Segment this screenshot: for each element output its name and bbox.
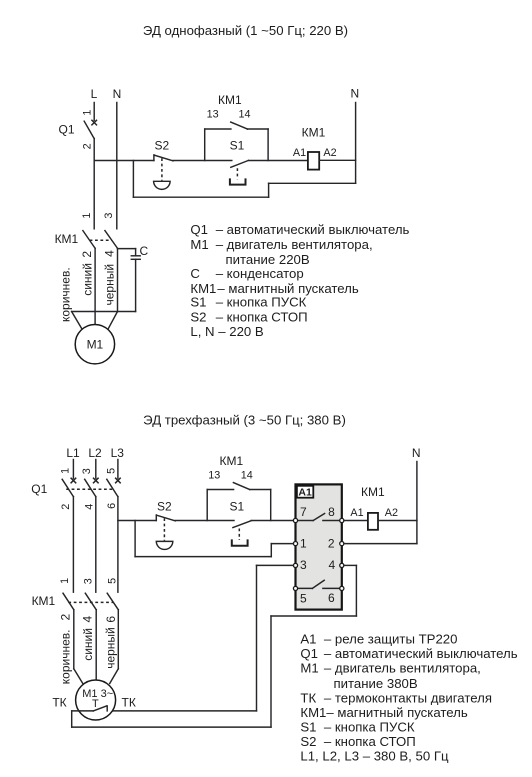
svg-text:S1: S1 — [229, 500, 244, 514]
button S2 moving arm — [154, 155, 173, 161]
svg-text:– конденсатор: – конденсатор — [216, 266, 304, 281]
motor M1 3~ circle — [76, 680, 116, 720]
capacitor C top lead — [135, 249, 137, 256]
button S1 moving arm — [233, 521, 251, 528]
svg-text:питание 220В: питание 220В — [226, 252, 310, 267]
svg-text:Q1: Q1 — [31, 482, 47, 496]
wire L2 drop — [95, 460, 97, 479]
wire rail S2 to S1 — [175, 520, 234, 522]
KM1 aux moving arm — [233, 483, 249, 490]
svg-text:Q1: Q1 — [58, 122, 74, 136]
wire N vertical — [416, 462, 418, 544]
svg-text:КМ1: КМ1 — [300, 705, 326, 720]
wire L1 drop — [72, 460, 74, 479]
svg-text:черный: черный — [103, 264, 117, 306]
KM1 aux right leg — [270, 490, 272, 521]
svg-text:синий: синий — [81, 628, 95, 661]
svg-text:М1: М1 — [300, 660, 318, 675]
svg-text:C: C — [139, 244, 148, 258]
relay contact 7-8 right segment — [323, 520, 340, 522]
svg-text:Q1: Q1 — [190, 222, 208, 237]
svg-text:2: 2 — [80, 251, 94, 258]
svg-text:А1: А1 — [300, 631, 316, 646]
wire branch to capacitor — [118, 248, 136, 250]
S2 mushroom head — [154, 181, 171, 189]
svg-text:Q1: Q1 — [300, 646, 318, 661]
KM1 aux branch left segment — [207, 489, 233, 491]
wire phase 1 down to KM1 — [72, 497, 74, 593]
svg-text:питание 380В: питание 380В — [334, 676, 418, 691]
S1 actuator dashed link — [238, 529, 240, 541]
svg-text:S1: S1 — [230, 139, 245, 153]
wire pin 1 return: horizontal — [271, 543, 293, 545]
wire N down to KM1 contact — [116, 103, 118, 229]
svg-text:– автоматический выключатель: – автоматический выключатель — [324, 646, 518, 661]
wire motor bottom rail — [72, 311, 136, 313]
S1 push bracket — [230, 179, 246, 184]
svg-text:М1: М1 — [190, 237, 208, 252]
S2 mushroom head — [156, 541, 173, 549]
KM1 main arm pole 3 — [107, 593, 118, 610]
svg-text:L3: L3 — [111, 446, 125, 460]
svg-text:4: 4 — [102, 250, 116, 257]
svg-text:2: 2 — [81, 143, 93, 149]
KM1 aux contact 13-14: left leg — [204, 129, 206, 161]
KM1 main arm pole 2 — [85, 593, 96, 610]
svg-text:– кнопка ПУСК: – кнопка ПУСК — [216, 295, 307, 310]
KM1 mechanical dashed link — [90, 239, 112, 241]
KM1 aux branch right segment — [247, 128, 268, 130]
svg-text:5: 5 — [106, 578, 118, 584]
wire return loop lower horizontal — [133, 196, 268, 198]
svg-text:7: 7 — [300, 505, 307, 519]
wire черный down — [117, 610, 119, 669]
wire coil to N — [319, 159, 355, 161]
breaker Q1 arm pole 1 — [62, 479, 73, 496]
svg-text:13: 13 — [207, 109, 219, 121]
svg-text:2: 2 — [60, 504, 72, 510]
svg-text:– реле защиты ТР220: – реле защиты ТР220 — [324, 631, 458, 646]
wire left slant into motor — [74, 669, 83, 684]
svg-text:коричнев.: коричнев. — [58, 629, 72, 684]
svg-text:A1: A1 — [350, 507, 363, 519]
svg-text:черный: черный — [104, 627, 118, 669]
svg-text:КМ1: КМ1 — [361, 485, 385, 499]
svg-text:L, N – 220 В: L, N – 220 В — [190, 324, 264, 339]
svg-text:1: 1 — [59, 468, 71, 474]
wire L drop to breaker — [93, 103, 95, 121]
breaker Q1 cross mark pole 1 — [71, 478, 76, 483]
button S1 moving arm — [231, 160, 249, 167]
KM1 main dashed link — [68, 601, 113, 603]
svg-text:S2: S2 — [154, 139, 169, 153]
terminal circle pin 3 — [293, 563, 297, 567]
wire return loop left riser — [132, 161, 134, 198]
wire pin 8 to coil — [344, 520, 368, 522]
KM1 aux right leg — [267, 129, 269, 161]
svg-text:6: 6 — [106, 503, 118, 509]
svg-text:1: 1 — [82, 110, 94, 116]
breaker Q1 cross mark — [92, 120, 97, 125]
svg-text:S2: S2 — [157, 500, 172, 514]
relay contact 7-8 left segment — [298, 520, 314, 522]
S1 push bracket — [232, 540, 248, 545]
terminal circle pin 4 — [340, 563, 344, 567]
svg-text:– кнопка СТОП: – кнопка СТОП — [216, 310, 308, 325]
wire control rail left segment — [94, 160, 154, 162]
svg-text:– магнитный пускатель: – магнитный пускатель — [326, 705, 467, 720]
button S2 moving arm — [157, 515, 176, 521]
terminal circle pin 5 — [293, 586, 297, 590]
wire pin 1 return: step down — [270, 544, 272, 557]
svg-text:ТК: ТК — [300, 690, 316, 705]
motor M1 circle — [75, 325, 114, 364]
wire коричнев down — [73, 610, 75, 669]
svg-text:4: 4 — [328, 558, 335, 572]
relay contact 5-6 left segment — [298, 587, 313, 589]
svg-text:A2: A2 — [323, 147, 336, 159]
wire return loop upper horizontal — [269, 182, 356, 184]
svg-text:С: С — [190, 266, 200, 281]
svg-text:КМ1: КМ1 — [55, 232, 79, 246]
svg-text:ЭД трехфазный (3 ~50 Гц; 380 В: ЭД трехфазный (3 ~50 Гц; 380 В) — [143, 413, 346, 428]
wire pin 3 to TK right — [107, 710, 256, 712]
svg-text:3: 3 — [103, 213, 115, 219]
coil KM1 (A1-A2) — [308, 152, 319, 170]
svg-text:N: N — [113, 87, 122, 101]
wire pin 3 drop — [256, 565, 258, 711]
svg-text:A2: A2 — [385, 507, 398, 519]
wire N right vertical — [355, 103, 357, 184]
svg-text:КМ1: КМ1 — [32, 594, 56, 608]
wire pin 4 long drop — [270, 616, 272, 727]
breaker Q1 arm pole 3 — [107, 479, 118, 496]
coil KM1 (A1-A2) — [368, 513, 378, 530]
KM1 aux branch left segment — [205, 128, 231, 130]
breaker Q1 arm pole 2 — [85, 479, 96, 496]
wire L3 drop — [117, 460, 119, 479]
wire bottom run to TK left — [72, 726, 271, 728]
wire pin 2 to N — [344, 543, 417, 545]
KM1 aux branch right segment — [250, 489, 271, 491]
svg-text:КМ1: КМ1 — [219, 454, 243, 468]
KM1 aux contact: left leg — [206, 490, 208, 521]
svg-text:2: 2 — [58, 614, 72, 621]
svg-text:синий: синий — [81, 263, 95, 296]
svg-text:N: N — [350, 87, 359, 101]
wire pin 4 stub — [344, 564, 357, 566]
svg-text:5: 5 — [300, 591, 307, 605]
svg-text:– автоматический выключатель: – автоматический выключатель — [216, 222, 410, 237]
breaker Q1 moving arm — [84, 121, 94, 138]
svg-text:КМ1: КМ1 — [190, 281, 216, 296]
wire control rail tap from L3 — [118, 520, 156, 522]
KM1 main contact arm (pole 3-4) — [105, 231, 118, 249]
svg-text:4: 4 — [80, 615, 94, 622]
wire right slant into motor — [108, 312, 117, 329]
svg-text:L1: L1 — [66, 446, 80, 460]
svg-text:ЭД однофазный (1 ~50 Гц; 220 В: ЭД однофазный (1 ~50 Гц; 220 В) — [143, 23, 348, 38]
terminal circle pin 6 — [340, 586, 344, 590]
svg-text:1: 1 — [300, 537, 307, 551]
wire pin 1 return: left riser to rail — [134, 521, 136, 557]
wire L phase down to KM1 contact — [93, 139, 95, 229]
wire pin 1 return: lower horizontal — [135, 556, 271, 558]
wire phase 2 down to KM1 — [95, 497, 97, 593]
TK contact right tick — [106, 706, 108, 711]
svg-text:– термоконтакты двигателя: – термоконтакты двигателя — [324, 690, 492, 705]
breaker Q1 dashed link — [66, 488, 112, 490]
wire черный (black) down — [117, 249, 119, 312]
capacitor C bottom lead — [135, 259, 137, 311]
relay A1 name box — [297, 486, 313, 498]
svg-text:ТК: ТК — [122, 696, 136, 710]
terminal circle pin 1 — [293, 542, 297, 546]
TK contact left stub — [72, 710, 94, 712]
svg-text:N: N — [412, 446, 421, 460]
svg-text:S2: S2 — [190, 310, 206, 325]
terminal circle pin 8 — [340, 518, 344, 522]
KM1 main contact arm (pole 1-2) — [83, 231, 95, 249]
svg-text:S1: S1 — [190, 295, 206, 310]
KM1 main arm pole 1 — [63, 593, 74, 610]
svg-text:– двигатель вентилятора,: – двигатель вентилятора, — [216, 237, 373, 252]
wire rail S1 to relay pin 7 — [251, 520, 293, 522]
svg-text:L2: L2 — [88, 446, 102, 460]
svg-text:КМ1: КМ1 — [302, 125, 326, 139]
S2 actuator dashed link — [163, 518, 165, 540]
wire left slant into motor — [72, 312, 82, 329]
TK contact arm — [93, 706, 106, 711]
S1 actuator dashed link — [236, 168, 238, 179]
relay contact 7-8 arm — [313, 514, 324, 521]
relay A1 block body — [296, 484, 342, 609]
terminal circle pin 7 — [293, 518, 297, 522]
wire синий (blue) to motor — [94, 248, 96, 324]
wire синий down — [95, 610, 97, 681]
svg-text:4: 4 — [84, 504, 96, 510]
breaker Q1 cross mark pole 3 — [116, 478, 121, 483]
relay contact 5-6 arm — [312, 580, 324, 588]
svg-text:– двигатель вентилятора,: – двигатель вентилятора, — [324, 660, 481, 675]
capacitor C plates — [131, 256, 140, 259]
wire TK left riser — [71, 711, 73, 727]
svg-text:S2: S2 — [300, 734, 316, 749]
svg-text:6: 6 — [328, 591, 335, 605]
wire rail S1 to coil — [249, 160, 308, 162]
wire pin 4 drop — [355, 565, 357, 616]
svg-text:S1: S1 — [300, 720, 316, 735]
svg-text:М1: М1 — [87, 337, 104, 351]
svg-text:1: 1 — [81, 213, 93, 219]
svg-text:L: L — [91, 87, 98, 101]
svg-text:КМ1: КМ1 — [218, 93, 242, 107]
button S2 fixed tick — [153, 155, 155, 161]
svg-text:8: 8 — [328, 505, 335, 519]
svg-text:L1, L2, L3 – 380 В, 50 Гц: L1, L2, L3 – 380 В, 50 Гц — [300, 749, 449, 764]
S2 actuator dashed link — [161, 158, 163, 180]
svg-text:1: 1 — [59, 578, 71, 584]
svg-text:14: 14 — [238, 109, 250, 121]
svg-text:3: 3 — [300, 558, 307, 572]
svg-text:– кнопка СТОП: – кнопка СТОП — [324, 734, 416, 749]
wire pin 4 horizontal under relay — [271, 615, 356, 617]
svg-text:6: 6 — [104, 616, 118, 623]
svg-text:– кнопка ПУСК: – кнопка ПУСК — [324, 720, 415, 735]
svg-text:– магнитный пускатель: – магнитный пускатель — [217, 281, 358, 296]
wire phase 3 down to KM1 — [117, 497, 119, 593]
KM1 aux moving arm — [231, 122, 248, 129]
svg-text:14: 14 — [241, 469, 253, 481]
svg-text:коричнев.: коричнев. — [59, 267, 73, 322]
svg-text:3: 3 — [83, 578, 95, 584]
svg-text:A1: A1 — [293, 147, 306, 159]
svg-text:А1: А1 — [298, 487, 312, 499]
svg-text:13: 13 — [208, 469, 220, 481]
svg-text:5: 5 — [105, 468, 117, 474]
wire pin 3 horizontal — [257, 564, 294, 566]
button S2 fixed tick — [155, 515, 157, 521]
svg-text:ТК: ТК — [52, 696, 66, 710]
wire right slant into motor — [110, 669, 119, 684]
wire coil to N — [378, 520, 417, 522]
terminal circle pin 2 — [340, 542, 344, 546]
breaker Q1 cross mark pole 2 — [94, 478, 99, 483]
wire return loop step vertical — [268, 183, 270, 197]
wire rail S2 to S1 — [173, 160, 232, 162]
svg-text:2: 2 — [328, 537, 335, 551]
svg-text:3: 3 — [81, 468, 93, 474]
relay contact 5-6 right segment — [323, 587, 340, 589]
